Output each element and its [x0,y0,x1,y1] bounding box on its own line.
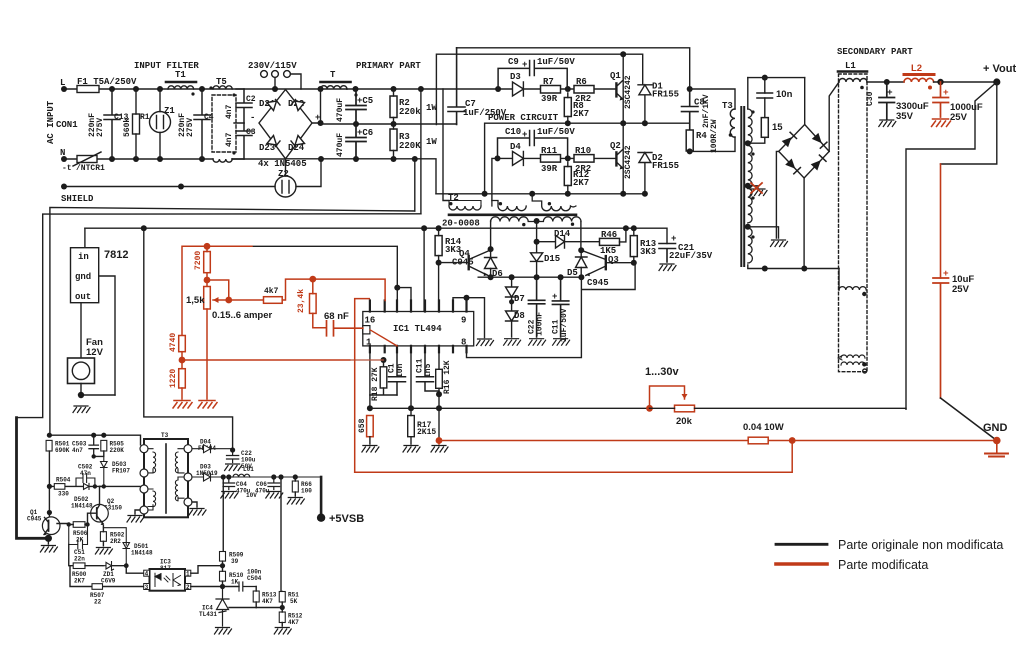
wire to 4k7 [229,299,264,301]
wire mid rail P [321,123,457,125]
resistor R513 4K7 [253,591,259,602]
wire aux branch down x=144 [144,228,233,450]
resistor R46 1K5 [600,238,620,245]
svg-text:16: 16 [365,316,376,326]
wire y=408 continues to pot and right [650,407,907,409]
wire secondary AC top rail [748,77,805,79]
svg-text:Q3: Q3 [608,255,619,265]
svg-text:T: T [330,70,336,80]
svg-text:470uF: 470uF [336,133,345,157]
svg-text:R16 12K: R16 12K [443,360,452,394]
svg-text:+: + [887,87,893,98]
svg-text:4740: 4740 [169,333,178,352]
svg-text:gnd: gnd [75,272,91,282]
wire T2 top rail [436,193,645,195]
svg-text:IC1 TL494: IC1 TL494 [393,324,442,334]
resistor R505 220K [101,440,107,451]
svg-text:C2: C2 [246,95,256,104]
wire power mid rail Q [485,123,690,194]
capacitor C3 4n7 [236,123,252,159]
svg-text:AC INPUT: AC INPUT [46,100,56,144]
center tap to ground with red X [748,186,758,188]
zener ZD1 C6V9 [103,562,114,571]
svg-text:R504: R504 [56,477,71,484]
svg-text:D8: D8 [514,311,525,321]
wire red 10uF feed [940,164,942,278]
svg-text:0.04 10W: 0.04 10W [743,422,784,433]
resistor 15 [761,118,768,138]
svg-text:20k: 20k [676,416,693,427]
svg-text:+C5: +C5 [357,96,373,106]
svg-text:C10: C10 [505,127,521,137]
resistor R3 220K 1W [390,129,397,151]
svg-text:4n7: 4n7 [225,104,234,119]
IC pins top [370,301,467,353]
wire Vout down-branch B (to 10uF red) [941,82,997,164]
resistor 4k7 (red) [264,297,283,304]
svg-text:C504: C504 [247,575,262,582]
wire collector column [48,486,50,516]
svg-text:R11: R11 [541,146,558,156]
svg-text:D15: D15 [544,254,560,264]
svg-text:+: + [943,268,949,279]
lower tap to ground [748,227,779,238]
wire T3 primary top [690,89,735,109]
diode D503 FR107 [101,456,108,488]
wire center tap down [536,221,538,253]
svg-text:C9: C9 [508,57,519,67]
wire red bottom rail y=472 [355,441,793,473]
resistor 7200 (red) [204,252,211,273]
capacitor C10 1uF/50V [498,131,568,159]
wire L rail [64,88,347,90]
svg-text:D4: D4 [510,142,521,152]
svg-text:100n: 100n [247,569,262,576]
resistor R2 220k 1W [390,96,397,118]
wire red vref line [182,246,252,335]
wire thick standby feed [17,418,49,539]
svg-text:R6: R6 [576,77,587,87]
svg-text:2SC4242: 2SC4242 [624,145,633,179]
T2 core bar [449,214,576,217]
resistor R509 39 [220,552,226,562]
svg-text:5K: 5K [290,598,298,605]
svg-text:39: 39 [231,558,239,565]
diode D502 1N4148 [84,483,90,489]
svg-text:R10: R10 [575,146,591,156]
capacitor C4 220nF 275V [194,89,210,159]
wire standby HV rail [50,435,141,445]
red grounds under 1220 and pot [173,401,192,409]
svg-text:2K15: 2K15 [417,428,436,437]
capacitor C22 100nF [528,277,544,337]
wire pin4 column [410,352,412,408]
resistor R506 2K [73,522,85,528]
svg-text:POWER CIRCUIT: POWER CIRCUIT [488,113,559,123]
svg-text:2K7: 2K7 [573,109,589,119]
wire Q1 base row [57,524,69,525]
capacitor C13 220nF 275V [104,89,120,159]
svg-text:1uF/50V: 1uF/50V [537,127,575,137]
svg-text:T1: T1 [175,70,186,80]
svg-text:47n: 47n [80,470,91,477]
wire Q2 collector to primary [100,485,104,487]
resistor R507 22 [70,566,144,587]
wire IC3 pin2 [191,586,239,588]
svg-text:C6V9: C6V9 [101,578,116,585]
svg-text:1,5k: 1,5k [186,295,205,306]
T2 primary windings [449,201,481,207]
svg-text:1N4148: 1N4148 [131,550,153,557]
capacitor C2 4n7 [236,89,252,123]
svg-text:T3: T3 [722,101,733,111]
svg-text:4x 1N5405: 4x 1N5405 [258,159,307,169]
wire TL431 ref row [229,607,282,609]
svg-text:+: + [671,234,676,244]
svg-text:1: 1 [186,571,190,578]
resistor R18 27K [380,367,387,388]
svg-text:Q2: Q2 [610,141,621,151]
wire red ground rail y=440 [439,440,997,442]
svg-text:220K: 220K [110,447,125,454]
wire aux rail y=228 [85,228,667,243]
resistor R7 39R [541,86,561,94]
wire pin10 short [453,298,467,301]
svg-text:4k7: 4k7 [264,287,279,296]
svg-text:100nF: 100nF [536,312,545,336]
resistor R502 2R2 [100,532,106,542]
svg-text:+: + [522,60,527,70]
wire vertical x421 L-rail to enclosure wire V [420,89,422,214]
wire +5VSB [320,477,323,518]
svg-text:220k: 220k [399,107,421,117]
capacitor C7 1uF/250V [448,48,465,125]
svg-text:275V: 275V [186,118,195,137]
resistor R504 330 [54,484,65,490]
wire feedback column x=223 [222,477,224,552]
svg-text:690K: 690K [55,447,70,454]
svg-text:D7: D7 [514,294,525,304]
wire aux rail to 7812 in [84,228,86,248]
svg-text:220K: 220K [399,141,421,151]
svg-text:D5: D5 [567,268,578,278]
capacitor C8 2nF/1KV [682,89,699,130]
capacitor C51 22n [69,525,88,550]
wire primary top rail y=89 [347,88,616,90]
ground under R16 column [438,441,440,445]
svg-text:1W: 1W [426,103,437,113]
svg-text:1n5: 1n5 [424,363,433,378]
wire fan bottom [81,384,115,396]
diode D7 [506,277,518,297]
wire T3 primary bottom [690,137,735,151]
resistor R512 4K7 [279,612,285,623]
wire N rail [64,158,286,160]
resistor 0.04 10W (red) [748,437,768,444]
wire emitter rail [478,276,581,278]
wire R500 row [69,545,73,566]
pin16 tab [363,326,370,334]
svg-text:1N4148: 1N4148 [71,503,93,510]
varistor Z1 [150,112,171,133]
svg-text:22uF/35V: 22uF/35V [669,251,713,261]
diode D3 [513,82,524,96]
svg-text:2SC4242: 2SC4242 [624,75,633,109]
svg-text:+C6: +C6 [357,128,373,138]
svg-text:15: 15 [772,122,783,133]
capacitor 1000uF 25V (red, added) [933,82,949,117]
resistor R14 3K3 [435,236,442,256]
wire to IC3 pin4 [126,566,144,574]
svg-text:25V: 25V [952,284,970,295]
wire bottom rail to jog [286,159,437,194]
diode D2 FR155 [638,153,652,194]
legend black line [776,543,827,546]
svg-text:4K7: 4K7 [288,619,299,626]
svg-text:330: 330 [58,491,69,498]
svg-text:+: + [522,130,527,140]
wire vertical x415 N-rail to enclosure wire U [414,159,416,211]
capacitor C502 47n [76,474,95,487]
wire Vout down-branch A (to GND diagonal) [906,82,997,409]
resistor R12 2K7 [564,167,571,186]
wire L1 out to C30 node [867,81,904,83]
capacitor C9 1uF/50V [498,61,567,90]
svg-text:Parte modificata: Parte modificata [838,558,928,572]
wire pin8 to Q3 base net [467,263,636,358]
diode D1 FR155 [638,85,652,123]
svg-text:12V: 12V [86,347,104,358]
svg-text:4n7: 4n7 [72,447,83,454]
resistor R501 690K [46,440,52,451]
svg-text:2R2: 2R2 [110,538,121,545]
wire 7812 gnd [99,276,115,395]
svg-text:100: 100 [301,488,312,495]
wire top feed y=47.8 [457,48,690,89]
wire bridge plus to T [312,89,321,123]
svg-text:4K7: 4K7 [262,598,273,605]
wire winding right end to Q3 [580,222,582,251]
resistor R1 560k [133,114,140,134]
svg-text:100R/2W: 100R/2W [710,119,719,153]
svg-text:22: 22 [94,599,102,606]
wire pin12 feed [423,228,425,311]
capacitor C04 470u 10V [223,477,235,490]
svg-text:in: in [78,252,89,262]
resistor R11 39R [541,155,561,163]
wire L2 to Vout [934,81,997,83]
ground under T3 left [135,510,140,514]
IC1 TL494 body [363,312,474,346]
svg-text:7200: 7200 [194,251,203,270]
svg-text:SHIELD: SHIELD [61,194,94,204]
bridge diodes (filled) [782,137,792,147]
svg-text:68 nF: 68 nF [324,311,349,322]
svg-text:20-0008: 20-0008 [442,219,480,229]
svg-text:+: + [943,87,949,98]
resistor R17 2K15 [408,416,415,437]
svg-text:39R: 39R [541,94,558,104]
resistor R10 2R2 [574,155,594,163]
svg-text:3K3: 3K3 [640,247,656,257]
wire diagonal to GND node [941,398,997,441]
svg-text:C3: C3 [246,128,256,137]
red diagonal inside IC [370,330,397,346]
resistor R4 100R/2W [686,130,693,151]
svg-text:10n: 10n [776,89,793,100]
wire SHIELD [64,186,275,188]
svg-text:PRIMARY PART: PRIMARY PART [356,61,421,71]
svg-text:25V: 25V [950,112,968,123]
wire control line y=408 [370,407,650,409]
svg-text:1W: 1W [426,137,437,147]
wire vertical B row1 to T2 [443,89,449,201]
bridge rectifier secondary [779,125,830,179]
resistor R6 2R2 [574,86,594,94]
regulator 7812 [71,248,99,303]
legend red line [776,562,827,566]
resistor R500 2K7 [73,563,85,569]
svg-text:230V/115V: 230V/115V [248,61,297,71]
svg-text:2: 2 [186,584,190,591]
resistor R51 5K [279,592,285,603]
svg-text:GND: GND [983,422,1008,434]
red segment into pin2 dot [350,359,384,361]
wire 7812 out to fan [80,303,82,358]
capacitor C1 10n [389,352,406,395]
svg-text:CON1: CON1 [56,120,78,130]
svg-text:+5VSB: +5VSB [329,513,364,525]
snubber tap: 10n + 15 [748,78,765,144]
svg-text:L01: L01 [243,466,254,473]
wire enclosure V [17,214,421,418]
wire IC3 pin1 [191,566,223,574]
resistor R66 100 [292,481,298,492]
wire dt/feedback black [252,246,397,287]
diode D501 1N4148 [103,528,129,566]
svg-text:2K7: 2K7 [573,178,589,188]
thermistor NTCR1 [77,156,97,163]
capacitor 68nF (red) [327,321,363,336]
svg-text:R4: R4 [696,131,707,141]
potentiometer 1,5k (red) [204,287,211,310]
resistor R13 3K3 [630,236,637,257]
svg-text:0.15..6 amper: 0.15..6 amper [212,310,273,321]
svg-text:T2: T2 [448,193,459,203]
svg-text:R18 27K: R18 27K [371,367,380,401]
resistor 658 (red outline, modified) [367,416,374,437]
svg-text:C945: C945 [587,278,609,288]
resistor 4740 (red) [179,336,186,352]
diode D6 [485,258,497,269]
wire enclosure U [50,207,415,435]
wire pin9/10 to ground [467,298,485,338]
svg-text:23,4k: 23,4k [297,289,306,313]
svg-text:L2: L2 [911,63,922,74]
svg-text:Z1: Z1 [164,106,175,116]
svg-text:+ Vout: + Vout [983,63,1016,75]
red X mark [751,183,762,193]
svg-text:1220: 1220 [169,369,178,388]
svg-text:2K7: 2K7 [74,578,85,585]
svg-text:R7: R7 [543,77,554,87]
svg-text:T3: T3 [161,432,169,439]
svg-text:SECONDARY PART: SECONDARY PART [837,47,913,57]
ground GND output [993,437,1001,445]
wire C2/C3 column [232,89,244,159]
svg-text:C30: C30 [866,91,875,106]
wire secondary top end [747,78,749,109]
svg-text:TL431: TL431 [199,611,217,618]
svg-text:FR155: FR155 [652,161,679,171]
svg-text:560k: 560k [123,118,132,137]
svg-text:9: 9 [461,316,466,326]
svg-text:658: 658 [358,418,367,433]
svg-text:35V: 35V [896,111,914,122]
T2 secondary windings [491,217,537,222]
svg-text:-: - [250,113,255,123]
capacitor C22 100u 50V (standby) [227,450,239,463]
resistor R16 12K [436,369,443,388]
svg-text:3: 3 [145,584,149,591]
svg-text:4: 4 [145,571,149,578]
svg-text:D3: D3 [510,72,521,82]
resistor R510 1K [220,571,226,581]
svg-text:Q1: Q1 [610,71,621,81]
svg-text:1K: 1K [231,579,239,586]
wire red to pin15 [313,279,385,300]
svg-text:1uF/50V: 1uF/50V [537,57,575,67]
svg-text:1...30v: 1...30v [645,366,680,378]
svg-text:/NTCR1: /NTCR1 [76,164,105,173]
svg-text:C945: C945 [27,516,42,523]
svg-text:out: out [75,292,91,302]
svg-text:L1: L1 [845,61,856,71]
svg-text:470uF: 470uF [336,98,345,122]
wire pin1 column [369,352,371,408]
svg-text:4n7: 4n7 [225,132,234,147]
svg-text:10n: 10n [396,363,405,378]
L1 winding 2 [839,287,866,290]
svg-text:7812: 7812 [104,249,128,261]
svg-text:FR155: FR155 [652,90,679,100]
svg-text:FR107: FR107 [112,468,130,475]
wire second feed y=54.2 [436,54,642,124]
resistor 23,4k (red) [310,294,317,314]
svg-text:22n: 22n [74,556,85,563]
svg-text:-t: -t [62,164,72,173]
wire drive row2 [492,158,616,200]
svg-text:275V: 275V [96,118,105,137]
wire red deadtime loop pin16 [355,299,370,473]
wire R51 column from +5V rail [281,477,282,592]
L1 winding 3 pair [841,355,865,358]
resistor 1220 (red) [179,369,186,388]
svg-text:Parte originale non modificata: Parte originale non modificata [838,538,1003,552]
capacitor 10uF 25V (red, added) [933,278,949,398]
capacitor 10n [757,93,773,98]
ground T3 right bottom [192,502,197,507]
wire base drive row [49,485,140,487]
wire red sense line y=360 [182,359,350,361]
svg-text:39R: 39R [541,164,558,174]
capacitor C06 470u 16V [268,477,280,490]
diode D8 [506,297,518,337]
capacitor C503 4n7 [89,435,98,456]
svg-text:R1: R1 [140,113,150,122]
svg-text:INPUT FILTER: INPUT FILTER [134,61,199,71]
bridge rectifier D21-D24 [259,90,312,159]
